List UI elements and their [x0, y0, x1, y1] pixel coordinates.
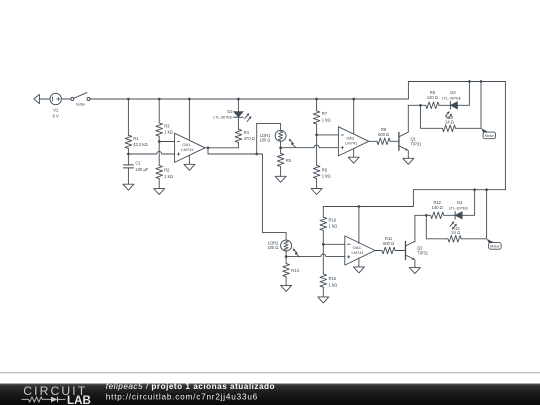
node R7 top: [315, 98, 318, 101]
svg-text:R4: R4: [244, 130, 250, 135]
label botao: [76, 102, 85, 106]
wire up to LDR1: [257, 123, 281, 154]
svg-text:24 Ω: 24 Ω: [451, 230, 460, 235]
node R1-C1 junction: [127, 153, 130, 156]
svg-text:600 Ω: 600 Ω: [378, 132, 389, 137]
node D3 rail tap: [468, 80, 471, 83]
ground below R2: [154, 189, 165, 195]
wire V+ to OA3: [358, 207, 360, 244]
svg-text:TIP31: TIP31: [411, 141, 423, 146]
wire OA3 V- to ground: [358, 258, 360, 267]
node R12-R13 tap: [425, 214, 428, 217]
svg-text:R2: R2: [164, 168, 170, 173]
wire V1 to switch: [61, 98, 71, 100]
label R11 value: [383, 236, 394, 246]
label R7 value: [322, 111, 331, 122]
wire R7 to R6: [316, 124, 318, 165]
wire OA2 V- to ground: [353, 149, 355, 157]
label C1 value: [135, 161, 148, 172]
svg-text:6 V: 6 V: [53, 114, 59, 119]
wire R5 to ground: [280, 167, 282, 177]
wire D4 to lower V+ rail: [462, 190, 474, 216]
node OA1 V+ tap: [188, 98, 191, 101]
node Motor2 rail tap: [485, 188, 488, 191]
svg-text:LM741: LM741: [181, 147, 194, 152]
LED D3: [445, 102, 457, 119]
op-amp OA3: [345, 236, 375, 265]
node Motor1 rail tap: [480, 80, 483, 83]
svg-text:C1: C1: [135, 161, 141, 166]
svg-text:24 Ω: 24 Ω: [445, 119, 454, 124]
ground below R15: [318, 297, 329, 303]
ground below OA2: [348, 157, 359, 163]
label R5 value: [286, 158, 292, 163]
net flag Motor (upper): [481, 128, 496, 138]
label R9 value: [427, 90, 438, 100]
ground below C1: [123, 184, 134, 190]
wire R12 to D4: [444, 214, 455, 216]
label R3 value: [164, 123, 173, 134]
CircuitLab logo text CIRCUIT: [23, 384, 87, 398]
footer title text: [106, 382, 275, 391]
op-amp OA1: [175, 133, 205, 162]
wire lower-right V+ rail: [323, 190, 505, 207]
label LDR1 value: [259, 133, 271, 143]
wire R4 to OA1 output: [237, 142, 239, 147]
photoresistor LDR2: [281, 240, 292, 251]
svg-text:140 Ω: 140 Ω: [432, 205, 443, 210]
svg-text:140 Ω: 140 Ω: [427, 95, 438, 100]
svg-text:100 Ω: 100 Ω: [267, 245, 278, 250]
footer url text: [106, 393, 258, 402]
node OA1 output junction: [207, 146, 210, 149]
resistor R2: [156, 165, 163, 178]
transistor Q2: [406, 241, 429, 259]
wire LDR2 node to OA3 non-inverting input (hop): [286, 254, 345, 257]
wire OA1 output: [205, 147, 239, 149]
svg-text:felipeac5 / projeto 1 acionas: felipeac5 / projeto 1 acionas atualizado: [106, 382, 275, 391]
CircuitLab logo wire art: [22, 397, 66, 403]
node R1 top: [127, 98, 130, 101]
svg-text:botão: botão: [76, 102, 85, 106]
footer bar: [0, 384, 540, 405]
resistor R6: [313, 165, 320, 178]
LED D4: [450, 212, 462, 229]
wire Q2 collector up: [414, 215, 416, 241]
svg-text:100 Ω: 100 Ω: [259, 138, 270, 143]
node OA3 V+ tap: [358, 205, 361, 208]
resistor R10: [442, 125, 455, 132]
svg-text:43.2 kΩ: 43.2 kΩ: [133, 142, 147, 147]
node R3 top: [158, 98, 161, 101]
wire collector node to R12: [415, 214, 431, 216]
ground below Q2: [409, 268, 420, 274]
svg-text:R3: R3: [164, 123, 170, 128]
svg-text:1 kΩ: 1 kΩ: [329, 224, 338, 229]
label D3 value: [442, 90, 462, 101]
wire V+ rail: [90, 98, 408, 100]
resistor R15: [320, 274, 327, 287]
svg-text:V1: V1: [53, 108, 59, 113]
photoresistor LDR1: [275, 130, 286, 141]
op-amp OA2: [338, 127, 368, 156]
wire R10 to Motor node: [456, 127, 481, 129]
node D2 top: [237, 98, 240, 101]
wire R16 to R15: [322, 230, 324, 274]
svg-text:LTL-307EE: LTL-307EE: [442, 96, 462, 101]
net flag (left terminal of V1): [34, 94, 50, 103]
wire rail to R3: [158, 99, 160, 123]
svg-text:100 µF: 100 µF: [135, 167, 148, 172]
resistor R16: [320, 217, 327, 230]
svg-text:LM741: LM741: [345, 141, 358, 146]
resistor R3: [156, 123, 163, 136]
wire OA1 output down-right: [208, 148, 262, 154]
wire rail to D2: [237, 99, 239, 112]
svg-text:R15: R15: [329, 276, 337, 281]
svg-text:R16: R16: [329, 217, 337, 222]
svg-text:TIP31: TIP31: [417, 251, 429, 256]
svg-text:LM741: LM741: [351, 250, 364, 255]
label R4 value: [244, 130, 255, 141]
label D2 value: [213, 109, 233, 120]
ground below R5: [275, 176, 286, 182]
svg-text:1 kΩ: 1 kΩ: [329, 282, 338, 287]
resistor R12: [431, 212, 444, 219]
wire LDR1 to R5: [280, 141, 282, 153]
CircuitLab logo text LAB: [67, 394, 91, 405]
label R12 value: [432, 200, 443, 210]
wire R13 to Motor node: [461, 238, 486, 240]
node LDR2-R14 junction: [285, 255, 288, 258]
label R6 value: [322, 168, 331, 179]
wire R15 to ground: [322, 287, 324, 297]
wire D2 to R4: [237, 117, 239, 129]
LDR2 light arrows: [293, 248, 300, 257]
wire lower rail to Motor node: [486, 190, 488, 239]
resistor R9: [426, 102, 439, 109]
svg-text:D4: D4: [457, 200, 463, 205]
wire C1 to ground: [127, 168, 129, 184]
wire R2 to ground: [158, 179, 160, 189]
svg-text:D2: D2: [227, 109, 233, 114]
wire R11 to Q2 base: [395, 250, 405, 252]
wire R3 to R2: [158, 136, 160, 165]
wire OA1 V- to ground: [188, 155, 190, 164]
wire OA3 output to R11: [375, 250, 382, 252]
wire Q1 emitter to ground: [407, 151, 409, 159]
resistor R14: [283, 264, 290, 277]
wire tap down to R13: [426, 215, 448, 239]
voltage source V1: [50, 93, 61, 104]
svg-text:600 Ω: 600 Ω: [383, 241, 394, 246]
wire OA2 output to R8: [369, 140, 377, 142]
label R13 value: [451, 226, 460, 235]
wire Q1 collector up: [407, 105, 409, 132]
wire collector node to R9: [408, 104, 426, 106]
wire V+ rail jog up: [408, 82, 505, 100]
svg-text:R5: R5: [286, 158, 292, 163]
node OA2 V+ tap: [352, 98, 355, 101]
svg-text:LTL-307EE: LTL-307EE: [449, 206, 469, 211]
LED D2: [234, 112, 252, 122]
svg-text:1 kΩ: 1 kΩ: [322, 117, 331, 122]
ground below Q1: [403, 158, 414, 164]
wire R1 to C1: [127, 148, 129, 165]
resistor R13: [448, 236, 461, 243]
node D4 rail tap: [473, 188, 476, 191]
ground below OA1: [184, 164, 195, 170]
wire V+ to OA2: [353, 99, 355, 134]
svg-text:R1: R1: [133, 136, 139, 141]
node LDR1-R5 junction: [279, 146, 282, 149]
resistor R5: [277, 153, 284, 166]
wire R14 to ground: [285, 277, 287, 286]
capacitor C1: [123, 165, 133, 168]
svg-text:R6: R6: [322, 168, 328, 173]
node R9-R10 tap: [419, 104, 422, 107]
wire R9 to D3: [439, 104, 450, 106]
transistor Q1: [399, 132, 422, 150]
svg-text:1 kΩ: 1 kΩ: [322, 174, 331, 179]
wire divider to OA2 inverting input: [317, 134, 339, 136]
svg-text:LAB: LAB: [67, 394, 91, 405]
wire LDR1 node to OA2 non-inverting input (hop): [281, 145, 339, 148]
node R3-R2 junction: [158, 140, 161, 143]
wire R1 node to OA1 non-inverting input (hop over divider): [128, 151, 174, 154]
node LDR1 feed junction: [255, 153, 258, 156]
svg-text:1 kΩ: 1 kΩ: [164, 130, 173, 135]
wire feed to lower section: [262, 154, 286, 240]
node R7-R6 junction: [315, 134, 318, 137]
label R16 value: [329, 217, 338, 228]
label V1 value: [53, 108, 59, 119]
svg-text:1 kΩ: 1 kΩ: [164, 174, 173, 179]
switch SW1 (botao): [71, 93, 90, 101]
wire rail to Motor node: [480, 82, 482, 129]
svg-text:R14: R14: [291, 268, 299, 273]
wire D3 to V+ rail: [458, 82, 470, 106]
svg-text:R7: R7: [322, 111, 328, 116]
wire rail to R7: [316, 99, 318, 111]
wire R6 to ground: [316, 179, 318, 189]
wire Q2 emitter to ground: [414, 260, 416, 268]
resistor R8: [377, 138, 390, 145]
label R14 value: [291, 268, 299, 273]
wire divider to OA1 inverting input: [159, 141, 174, 143]
svg-text:LTL-307EE: LTL-307EE: [213, 115, 233, 120]
ground below OA3: [353, 267, 364, 273]
wire LDR2 to R14: [285, 251, 287, 263]
label R1 value: [133, 136, 147, 147]
svg-text:D3: D3: [450, 90, 456, 95]
wire divider to OA3 inverting input: [323, 243, 345, 245]
LDR1 light arrows: [289, 139, 296, 148]
resistor R7: [313, 111, 320, 124]
ground below R6: [311, 189, 322, 195]
svg-text:http://circuitlab.com/c7nr2jj4: http://circuitlab.com/c7nr2jj4u33u6: [106, 393, 258, 402]
svg-text:Motor: Motor: [485, 134, 495, 138]
resistor R4: [235, 129, 242, 142]
svg-text:Motor: Motor: [490, 245, 500, 249]
svg-text:470 Ω: 470 Ω: [244, 136, 255, 141]
separator line above footer: [0, 372, 540, 374]
resistor R1: [125, 135, 132, 148]
wire R8 to Q1 base: [390, 140, 399, 142]
label LDR2 value: [267, 241, 279, 251]
wire tap down to R10: [421, 105, 443, 128]
node R16-R15 junction: [322, 243, 325, 246]
ground below R14: [281, 285, 292, 291]
net flag Motor (lower): [487, 239, 502, 249]
wire right-side V+ drop: [504, 82, 506, 190]
wire V+ to OA1: [188, 99, 190, 140]
label R2 value: [164, 168, 173, 179]
label R15 value: [329, 276, 338, 287]
wire lower rail to R16: [322, 207, 324, 218]
label R8 value: [378, 127, 389, 137]
resistor R11: [382, 247, 395, 254]
label D4 value: [449, 200, 469, 211]
label R10 value: [445, 115, 454, 124]
wire rail to R1: [127, 99, 129, 135]
